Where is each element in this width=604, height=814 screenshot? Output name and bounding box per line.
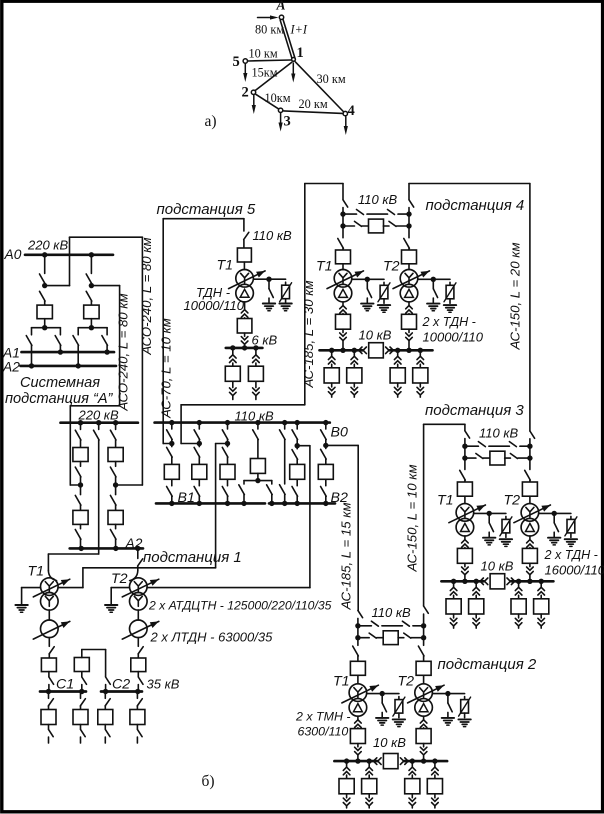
T2 sub2 neutral earthing switch: [447, 694, 449, 703]
sub2 bridge lower link right: [398, 637, 404, 639]
transformer T2 sub2 HV circle: [415, 684, 433, 702]
sub3 feeder drawout lower x454: [453, 614, 455, 618]
svg-text:T2: T2: [504, 493, 521, 509]
feeder 6kV drawout lower x255.9: [255, 381, 257, 387]
breaker sub2 T1: [350, 661, 365, 675]
wire ASO-240 line 1: [45, 285, 70, 287]
junction lower bus x171.8: [169, 501, 174, 506]
node bay x227.5: [225, 441, 230, 446]
junction A2-T1: [79, 546, 84, 551]
sub3 bridge upper link: [465, 445, 479, 447]
svg-text:А2: А2: [2, 359, 20, 374]
node 4: [343, 111, 347, 115]
bus B2: [269, 502, 335, 505]
node 2: [251, 90, 255, 94]
tie bay fork right: [258, 480, 272, 482]
disconnector T2 35kV low: [137, 672, 139, 677]
disconnector sub4 right entry: [408, 184, 410, 200]
transformer T1 sub3 HV circle: [456, 504, 474, 522]
sub3 bridge node right upper: [527, 444, 532, 449]
feeder 35kV breaker x137.4: [130, 710, 145, 725]
svg-text:10000/110: 10000/110: [184, 298, 245, 313]
svg-text:110 кВ: 110 кВ: [235, 409, 274, 424]
sub2 junction T left: [355, 758, 360, 763]
T2 neutral wire: [111, 587, 129, 589]
junction middle 220kV bay: [96, 420, 101, 425]
junction C2 tie: [103, 689, 108, 694]
node bay 1: [42, 283, 47, 288]
svg-text:T1: T1: [333, 674, 350, 690]
T1 sub2 neutral junction: [380, 691, 385, 696]
disconnector A2-T2: [137, 548, 139, 558]
svg-text:35 кВ: 35 кВ: [147, 677, 180, 692]
junction 6kV feeder x232.8: [230, 345, 235, 350]
sub2 feeder drawout lower x369: [368, 794, 370, 798]
sub2 T2 drawout lower: [423, 744, 425, 747]
sub4 bridge link verticals: [342, 214, 344, 226]
sub3 T1 LV breaker: [457, 548, 472, 563]
node 220kV bay right: [113, 482, 118, 487]
sub4 bridge node right lower: [406, 223, 411, 228]
disconnector 220kV bay left bottom: [80, 524, 82, 528]
svg-text:30 км: 30 км: [317, 72, 346, 86]
sub2 feeder drawout lower x412: [411, 794, 413, 798]
svg-text:10 км: 10 км: [249, 47, 278, 61]
sub2 feeder drawout lower x435: [434, 794, 436, 798]
T1 sub5 neutral wire: [253, 278, 285, 280]
sub2 T1 drawout lower: [357, 744, 359, 747]
svg-text:110 кВ: 110 кВ: [253, 228, 292, 243]
wire to AS-185-30 line: [181, 443, 199, 445]
svg-text:T2: T2: [383, 259, 400, 275]
breaker 220kV bay right lower: [108, 510, 123, 524]
disconnector 220kV bay left low: [80, 485, 82, 495]
svg-text:АС-185, L = 15 км: АС-185, L = 15 км: [339, 502, 354, 610]
T2 sub3 neutral wire: [539, 512, 571, 514]
feeder 35kV at x105.3: [104, 692, 106, 699]
svg-text:подстанция 5: подстанция 5: [157, 201, 256, 218]
OLTC arrow T2 sub3: [514, 505, 551, 523]
disconnector bypass lower: [280, 485, 286, 495]
svg-text:2: 2: [242, 85, 249, 101]
svg-text:В0: В0: [331, 425, 348, 441]
disconnector B0 x297.2: [296, 423, 298, 429]
surge arrester T1 sub4: [383, 282, 385, 285]
disconnector sub2 left entry: [358, 610, 363, 617]
sub4 drawout tie right: [386, 347, 394, 354]
disconnector sub2 right entry: [424, 606, 429, 613]
ground T2 sub3 switch: [548, 537, 560, 539]
disconnector 220kV bay right mid: [115, 462, 117, 467]
disconnector to A2 bay 2: [77, 328, 79, 335]
disconnector 220kV bay right low: [115, 485, 117, 495]
wire AS-185-30 up: [304, 184, 306, 405]
junction A2 bay 1: [29, 363, 34, 368]
transformer T1 sub3 LV circle: [456, 518, 474, 536]
svg-text:20 км: 20 км: [299, 97, 328, 111]
OLTC arrow T2 sub4: [393, 271, 430, 289]
wire bay6 to T2 tap: [297, 445, 310, 447]
sub4 feeder drawout lower x420: [419, 383, 421, 387]
svg-text:подстанция 4: подстанция 4: [426, 197, 525, 214]
sub4 T1 drawout lower: [342, 329, 344, 332]
disconnector mid bay x199.3: [198, 444, 200, 447]
T1 sub4 neutral wire: [352, 278, 384, 280]
sub2 bridge upper link: [358, 625, 372, 627]
autotransformer T2 circle LV: [130, 593, 148, 611]
sub2 junction feeder x435: [432, 758, 437, 763]
disconnector sub2 T2: [423, 638, 425, 646]
feeder 35kV at x80.5: [80, 692, 82, 699]
node 220kV bay left: [78, 482, 83, 487]
junction C1-T1: [46, 689, 51, 694]
sub2 drawout tie left: [373, 758, 381, 765]
junction lower bus x227.5: [225, 501, 230, 506]
T1 sub3 neutral earthing switch: [488, 513, 490, 522]
sub4 bridge upper link: [343, 213, 357, 215]
wire sub2 T2: [423, 675, 425, 683]
svg-text:АСО-240, L = 80 км: АСО-240, L = 80 км: [115, 293, 130, 411]
bus 220kV substation 1: [61, 421, 138, 424]
OLTC arrow T1 sub4: [327, 271, 364, 289]
sub4 feeder drawout upper x332: [331, 350, 333, 356]
junction 220kV bay left: [78, 420, 83, 425]
sub4 feeder drawout lower x398: [397, 383, 399, 387]
ground T1 sub2 arrester: [393, 718, 405, 720]
svg-text:110 кВ: 110 кВ: [358, 192, 397, 207]
breaker sub2 T2: [416, 661, 431, 675]
sub2 feeder drawout upper x435: [434, 761, 436, 767]
svg-text:С2: С2: [112, 677, 130, 693]
bus tie breaker: [74, 658, 89, 672]
disconnector 220kV bay left mid: [80, 462, 82, 467]
disconnector sub5 entry: [243, 219, 245, 231]
svg-text:10000/110: 10000/110: [423, 330, 484, 345]
wire sub2 T1: [357, 675, 359, 683]
sub4 junction feeder x398: [395, 348, 400, 353]
OLTC arrow T1 sub5: [229, 271, 266, 289]
sub4 T2 LV breaker: [402, 314, 417, 329]
sub2 junction feeder x412: [410, 758, 415, 763]
node bay x199.3: [197, 441, 202, 446]
breaker 220kV bay right upper: [108, 448, 123, 462]
feeder 35kV lower disconnector x80.5: [80, 725, 82, 730]
svg-text:АС-150, L = 20 км: АС-150, L = 20 км: [508, 242, 523, 350]
T2 sub4 neutral junction: [431, 277, 436, 282]
node bay x297.2: [295, 443, 300, 448]
disconnector sub2 T1: [357, 638, 359, 646]
wire sub3 T1: [464, 496, 466, 503]
svg-text:10 кВ: 10 кВ: [359, 328, 392, 343]
wire middle bay to T1: [98, 440, 100, 554]
svg-text:подстанция “А”: подстанция “А”: [5, 391, 114, 407]
sub2 feeder breaker x369: [362, 779, 377, 794]
T1 sub4 neutral earthing switch: [366, 279, 368, 288]
node bay x325.8: [323, 443, 328, 448]
sub2 bridge link verticals: [357, 626, 359, 638]
node below breaker bay 1: [44, 319, 46, 328]
svg-text:110 кВ: 110 кВ: [479, 426, 518, 441]
junction A1 bay 1: [58, 349, 63, 354]
disconnector to A1 bay 1: [59, 328, 61, 335]
svg-text:а): а): [205, 113, 217, 130]
sub4 feeder drawout lower x332: [331, 383, 333, 387]
ground T2 sub2 switch: [442, 717, 454, 719]
sub3 T1 drawout upper: [464, 536, 466, 539]
svg-text:16000/110: 16000/110: [545, 563, 604, 578]
junction B0 x297.2: [295, 420, 300, 425]
sub2 10kV bus right: [404, 760, 447, 763]
disconnector 2 bay 1: [40, 291, 46, 301]
disconnector low bay x297.2: [296, 479, 298, 485]
transformer T2 sub3 HV circle: [521, 504, 539, 522]
T1 sub3 neutral junction: [487, 511, 492, 516]
disconnector low bay x199.3: [198, 479, 200, 485]
neutral junction sub5: [266, 277, 271, 282]
svg-text:6300/110: 6300/110: [298, 725, 349, 739]
sub2 feeder breaker x347: [339, 779, 354, 794]
sub3 tie breaker 10kV: [490, 574, 505, 589]
sub3 junction feeder x454: [451, 579, 456, 584]
junction lower bus x297.2: [295, 501, 300, 506]
svg-text:T2: T2: [111, 571, 128, 587]
bus C1: [40, 690, 86, 693]
bus tie wire over: [81, 650, 83, 658]
node 1: [292, 58, 296, 62]
T2 sub3 neutral earthing switch: [553, 513, 555, 522]
bus 6kV: [226, 347, 263, 350]
svg-text:220 кВ: 220 кВ: [27, 238, 68, 253]
sub3 T2 drawout lower: [529, 563, 531, 566]
transformer T1 sub5 LV circle: [236, 284, 254, 302]
wire sub4 T1: [342, 264, 344, 270]
autotransformer T1 circle HV: [41, 578, 59, 596]
svg-text:T1: T1: [28, 564, 45, 580]
bus B0: [155, 421, 330, 424]
sub4 10kV bus right: [390, 349, 433, 352]
sub3 T2 drawout upper: [529, 536, 531, 539]
sub2 tie breaker 10kV: [383, 754, 398, 769]
breaker bay 1: [37, 305, 52, 319]
sub3 feeder drawout upper x519: [518, 581, 520, 587]
sub2 T1 drawout upper: [357, 716, 359, 719]
load arrow node 1: [292, 63, 294, 77]
sub3 junction feeder x476: [474, 579, 479, 584]
svg-text:АС-150, L = 10 км: АС-150, L = 10 км: [405, 464, 420, 572]
breaker 110kV bay x171.8: [164, 464, 179, 479]
junction A1 bay 2: [104, 349, 109, 354]
sub3 feeder breaker x541: [534, 599, 549, 614]
T2 110kV tap wire: [147, 587, 310, 589]
breaker 110kV bay x325.8: [318, 464, 333, 479]
transformer T2 sub2 LV circle: [415, 699, 433, 717]
junction on A0 bay 1: [42, 252, 47, 257]
ground neutral switch sub5: [263, 303, 275, 305]
junction 6kV feeder x255.9: [253, 345, 258, 350]
feeder 6kV breaker x232.8: [225, 366, 240, 381]
surge arrester T1 sub3: [505, 516, 507, 519]
disconnector sub3 left entry: [464, 424, 466, 430]
junction 220kV bay right: [113, 420, 118, 425]
bus tie C2 disconnector: [106, 677, 111, 684]
sub2 feeder drawout upper x412: [411, 761, 413, 767]
load arrow node 5: [244, 64, 246, 76]
breaker sub4 T2: [402, 250, 417, 264]
sub2 drawout tie right: [400, 758, 408, 765]
sub2 T2 LV breaker: [416, 729, 431, 744]
ground T2 sub2 arrester: [458, 718, 470, 720]
sub4 junction feeder x420: [418, 348, 423, 353]
T1 neutral wire: [22, 587, 41, 589]
disconnector T1 35kV low: [48, 672, 50, 677]
breaker 110kV bay x227.5: [220, 464, 235, 479]
transformer T1 sub4 HV circle: [334, 270, 352, 288]
sub4 feeder drawout upper x398: [397, 350, 399, 356]
OLTC arrow T1: [33, 579, 70, 597]
sub2 bridge tie breaker: [383, 631, 398, 645]
breaker sub4 T1: [336, 250, 351, 264]
ground T1 sub2 switch: [376, 717, 388, 719]
breaker bay 2: [84, 305, 99, 319]
breaker T2 35kV: [131, 658, 146, 672]
sub3 junction feeder x519: [516, 579, 521, 584]
svg-text:подстанция 1: подстанция 1: [143, 549, 242, 566]
autotransformer T2 circle HV: [130, 578, 148, 596]
svg-text:А0: А0: [4, 247, 22, 262]
sub3 feeder drawout lower x476: [475, 614, 477, 618]
transformer T1 sub2 LV circle: [349, 699, 367, 717]
sub4 bridge tie breaker: [369, 219, 384, 233]
surge arrester T1 sub2: [398, 697, 400, 700]
ground T1 neutral: [15, 604, 27, 606]
sub2 feeder drawout upper x347: [346, 761, 348, 767]
breaker T1 LV sub5: [237, 319, 252, 334]
wire sub4 T2: [408, 264, 410, 270]
svg-text:10км: 10км: [265, 91, 291, 105]
svg-text:5: 5: [233, 54, 240, 70]
regulating transformer T1: [48, 610, 50, 620]
ground T2 neutral: [105, 604, 117, 606]
sub4 junction T left: [340, 348, 345, 353]
svg-text:T1: T1: [437, 493, 454, 509]
disconnector sub3 T1: [464, 458, 466, 469]
bus A0: [25, 253, 113, 256]
breaker sub3 T1: [457, 482, 472, 496]
junction on A0 bay 2: [89, 252, 94, 257]
bus A1: [22, 351, 115, 354]
transformer T1 sub5 HV circle: [236, 270, 254, 288]
wire breaker-T1 sub5: [243, 262, 245, 270]
feeder 35kV breaker x48.5: [41, 710, 56, 725]
sub2 bridge node right upper: [421, 623, 426, 628]
disconnector low bay x227.5: [227, 479, 229, 485]
sub4 junction T right: [406, 348, 411, 353]
sub3 T1 drawout lower: [464, 563, 466, 566]
drawout contacts T1 sub5 upper: [244, 302, 246, 309]
ground T1 sub3 arrester: [500, 538, 512, 540]
svg-text:2 х ТДН -: 2 х ТДН -: [544, 548, 598, 562]
ground T2 sub4 arrester: [444, 304, 456, 306]
ground T2 sub3 arrester: [565, 538, 577, 540]
svg-text:2 х ЛТДН - 63000/35: 2 х ЛТДН - 63000/35: [150, 630, 274, 645]
sub3 bridge lower link: [465, 457, 476, 459]
ground T1 sub4 arrester: [378, 304, 390, 306]
feeder 35kV breaker x80.5: [73, 710, 88, 725]
sub4 bridge lower link: [343, 225, 355, 227]
svg-text:2 х ТМН -: 2 х ТМН -: [295, 710, 351, 724]
OLTC arrow T1 sub2: [342, 685, 379, 703]
sub3 feeder drawout upper x454: [453, 581, 455, 587]
surge arrester sub5: [285, 282, 287, 285]
sub4 bridge node left lower: [340, 223, 345, 228]
disconnector low bay x171.8: [171, 479, 173, 485]
svg-text:АСО-240, L = 80 км: АСО-240, L = 80 км: [139, 237, 154, 355]
wire AS-185-30 top: [305, 183, 343, 185]
T2 sub4 neutral earthing switch: [432, 279, 434, 288]
node bay 2: [89, 283, 94, 288]
feeder 6kV drawout lower x232.8: [232, 381, 234, 387]
junction lower bus x199.3: [197, 501, 202, 506]
sub3 10kV bus left: [441, 580, 484, 583]
disconnector B0 x171.8: [171, 423, 173, 429]
tie bay fork left: [244, 480, 258, 482]
svg-text:15км: 15км: [252, 66, 278, 80]
sub4 junction feeder x332: [329, 348, 334, 353]
breaker sub3 T2: [522, 482, 537, 496]
junction C2-T2: [135, 689, 140, 694]
T1 110kV tap wire: [58, 587, 83, 589]
disconnector B0 x199.3: [198, 423, 200, 429]
sub3 feeder breaker x454: [446, 599, 461, 614]
wire AS-70 line: [163, 218, 244, 220]
sub4 feeder breaker x398: [390, 368, 405, 383]
breaker tie bay: [250, 459, 265, 474]
line 1-2: [255, 62, 291, 90]
disconnector mid bay x297.2: [296, 446, 298, 449]
wire AS-150-20: [409, 183, 530, 185]
svg-text:I+I: I+I: [290, 23, 308, 37]
junction A2 bay right: [113, 546, 118, 551]
svg-text:АС-70, L = 10 км: АС-70, L = 10 км: [158, 318, 173, 419]
sub4 T1 drawout upper: [342, 302, 344, 305]
junction lower bus x325.8: [323, 501, 328, 506]
node tie bay: [257, 473, 259, 480]
transformer T1 sub4 LV circle: [334, 284, 352, 302]
junction B0 tie bay: [255, 420, 260, 425]
sub4 drawout tie left: [359, 347, 367, 354]
bus B1: [156, 502, 265, 505]
disconnector mid bay x325.8: [325, 445, 327, 448]
wire sub3 T2: [529, 496, 531, 503]
node A: [279, 15, 283, 19]
junction A2 bay 2: [76, 363, 81, 368]
lead curl into T1: [48, 571, 56, 581]
sub4 T2 drawout lower: [408, 329, 410, 332]
sub2 10kV bus left: [334, 760, 377, 763]
feeder 35kV at x137.4: [136, 692, 138, 699]
T2 sub2 neutral junction: [445, 691, 450, 696]
disconnector 220kV bay right top: [115, 423, 117, 430]
sub4 tie breaker 10kV: [369, 343, 384, 358]
sub3 feeder breaker x519: [511, 599, 526, 614]
svg-text:С1: С1: [56, 677, 74, 693]
disconnector A0 bay 1: [44, 255, 46, 274]
junction B0 x199.3: [197, 420, 202, 425]
feeder 35kV lower disconnector x137.4: [136, 725, 138, 730]
sub4 feeder drawout lower x354: [353, 383, 355, 387]
neutral earthing switch sub5: [268, 279, 270, 289]
svg-text:10 кВ: 10 кВ: [481, 559, 514, 574]
